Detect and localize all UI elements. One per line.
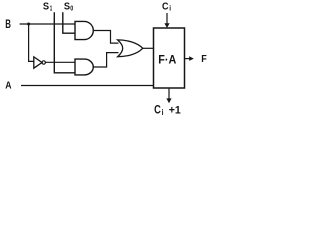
and-gate U2 bottom (B'·S1) [75, 59, 93, 75]
full-adder box U4 [154, 28, 185, 88]
svg-text:i: i [162, 108, 164, 117]
svg-text:C: C [162, 1, 169, 12]
svg-text:i: i [169, 4, 171, 13]
inverter (NOT gate) [34, 57, 42, 68]
svg-text:A: A [5, 81, 11, 92]
svg-text:F·A: F·A [158, 53, 176, 67]
arrowhead Ci input [164, 23, 169, 28]
wire B horizontal [20, 23, 75, 25]
wire S0 vertical to AND1 lower input [63, 12, 75, 33]
arrowhead Ci+1 output [166, 98, 171, 103]
svg-text:C: C [154, 103, 161, 117]
inverter bubble [42, 61, 45, 64]
svg-text:F: F [201, 54, 207, 65]
svg-text:S: S [43, 1, 49, 12]
wire S1 vertical to AND2 lower input [54, 12, 75, 73]
wire Ci input arrow shaft [166, 13, 168, 24]
wire inverter output to AND2 upper input [45, 61, 75, 63]
wire F output arrow shaft [185, 58, 191, 60]
wire B branch down to inverter [29, 24, 34, 61]
wire AND2 output to OR bottom input [93, 53, 118, 67]
node B branch junction [27, 23, 30, 26]
svg-text:B: B [5, 17, 11, 31]
svg-text:1: 1 [50, 3, 53, 12]
and-gate U1 top (B·S0) [75, 21, 93, 39]
wire A horizontal to full-adder box [21, 85, 154, 87]
wire AND1 output to OR top input [93, 31, 118, 44]
wire OR output to full-adder box [142, 47, 153, 49]
or-gate U3 [118, 40, 143, 57]
wire Ci+1 output arrow shaft [168, 89, 170, 99]
arrowhead F output [189, 56, 194, 61]
svg-text:0: 0 [70, 3, 73, 12]
svg-text:+1: +1 [169, 105, 181, 117]
